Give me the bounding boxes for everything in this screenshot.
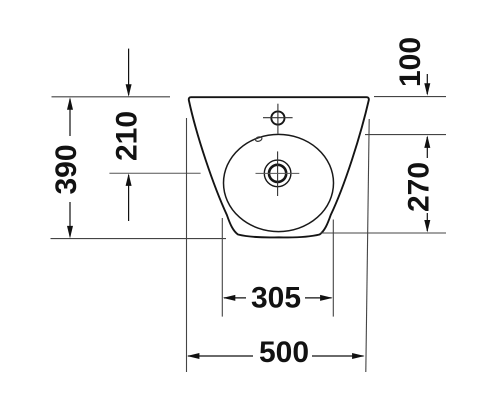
svg-text:100: 100 <box>394 37 427 87</box>
extension line 500 left vertical <box>186 118 188 372</box>
extension line 305 right vertical <box>332 220 334 317</box>
svg-text:210: 210 <box>111 111 144 161</box>
extension line top right <box>374 96 446 98</box>
svg-text:390: 390 <box>50 144 83 194</box>
bowl inner ellipse <box>224 134 334 231</box>
extension line 390 bottom <box>51 238 227 240</box>
drain crosshair vertical <box>277 151 279 196</box>
extension line top left <box>52 96 171 98</box>
dimension 500 left segment with left arrow <box>188 355 253 357</box>
dimension 270 top segment with up arrow <box>426 137 428 158</box>
dimension 210 top arrow (outside, pointing down) <box>128 49 130 95</box>
dimension 270 bottom segment with down arrow <box>426 213 428 231</box>
faucet crosshair vertical <box>277 104 279 134</box>
basin outer outline <box>189 97 369 237</box>
overflow mark <box>255 136 263 142</box>
dimension 390 line top segment with up arrow <box>69 99 71 136</box>
dimension 305 right segment with right arrow <box>305 297 332 299</box>
svg-text:305: 305 <box>251 282 301 315</box>
dimension 210 bottom arrow (outside, pointing up) <box>128 175 130 221</box>
faucet hole circle <box>271 111 284 124</box>
svg-text:500: 500 <box>259 336 309 369</box>
faucet crosshair horizontal <box>263 117 293 119</box>
dimension 500 right segment with right arrow <box>312 355 364 357</box>
drain inner circle <box>269 165 286 182</box>
extension line drain center left <box>109 172 200 174</box>
extension line 305 left vertical <box>221 218 223 317</box>
extension line 270 top <box>365 134 446 136</box>
extension line 270 bottom <box>321 232 447 234</box>
drain crosshair horizontal <box>256 172 300 174</box>
svg-text:270: 270 <box>403 162 436 212</box>
extension line 500 right vertical <box>366 119 369 372</box>
dimension 100 line with down arrow <box>426 74 428 94</box>
dimension 305 left segment with left arrow <box>224 297 246 299</box>
dimension 390 line bottom segment with down arrow <box>69 202 71 237</box>
drain outer circle <box>264 160 291 187</box>
